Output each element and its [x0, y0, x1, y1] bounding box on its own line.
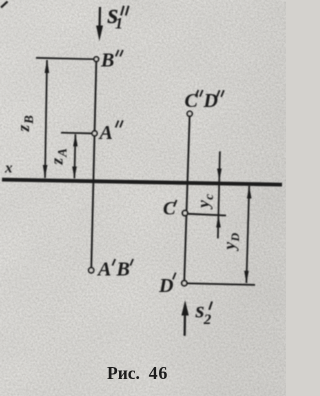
svg-text:A: A [96, 259, 111, 281]
svg-text:B: B [116, 259, 130, 281]
svg-text:x: x [4, 161, 13, 177]
svg-text:A: A [98, 122, 113, 144]
svg-text:D: D [158, 275, 173, 297]
svg-text:2: 2 [203, 312, 212, 328]
svg-text:B: B [100, 50, 114, 72]
svg-text:Рис.: Рис. [107, 363, 140, 383]
svg-text:D: D [203, 90, 218, 112]
svg-text:C: C [163, 198, 176, 219]
svg-text:46: 46 [149, 363, 169, 383]
svg-text:1: 1 [115, 15, 123, 32]
